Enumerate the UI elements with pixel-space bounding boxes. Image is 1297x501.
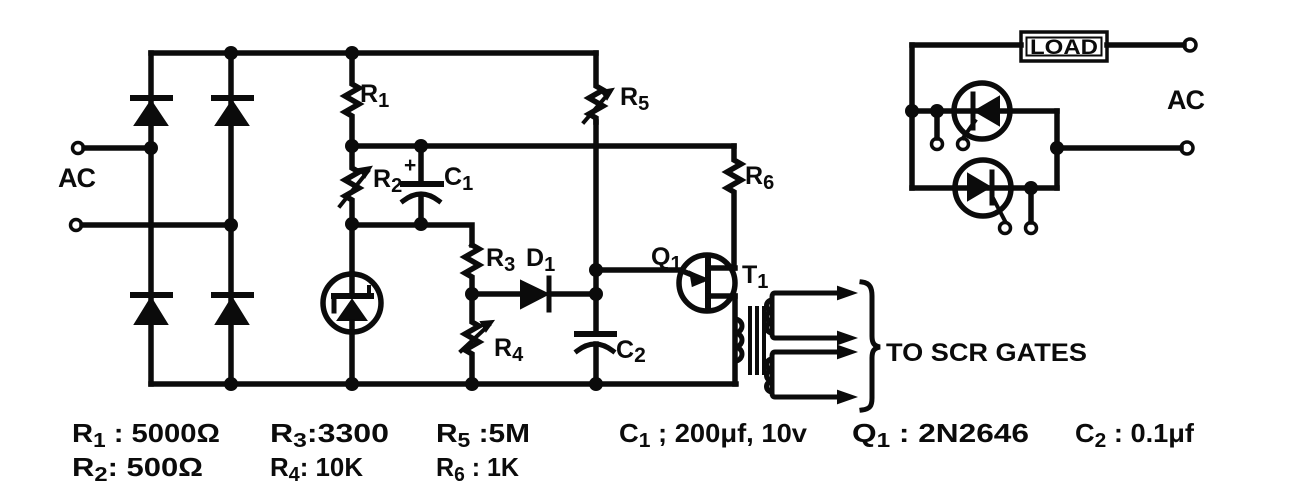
svg-text:R3:3300: R3:3300 <box>270 418 389 452</box>
svg-text:R2: R2 <box>373 165 402 197</box>
svg-text:TO SCR GATES: TO SCR GATES <box>886 339 1087 367</box>
transformer T1 primary winding <box>735 319 742 361</box>
svg-text:AC: AC <box>58 163 95 193</box>
svg-text:T1: T1 <box>742 261 768 293</box>
arrow gate lead 2 <box>838 332 855 344</box>
SCR1 cathode terminal drop <box>934 111 940 138</box>
transformer T1 secondary 1 bumps <box>767 300 772 333</box>
svg-text:+: + <box>404 154 416 177</box>
wire C1/R2 bottom node <box>352 225 472 245</box>
resistor R2 (variable) <box>340 146 371 225</box>
svg-text:LOAD: LOAD <box>1030 36 1098 59</box>
transistor Q1 (UJT 2N2646) <box>679 255 735 311</box>
wire top rail <box>151 50 596 56</box>
wire AC input 1 <box>84 145 151 151</box>
AC terminal right 2 <box>1181 142 1193 154</box>
arrow gate lead 3 <box>838 346 855 358</box>
svg-text:R6: R6 <box>745 162 774 194</box>
svg-text:R2: 500Ω: R2: 500Ω <box>72 452 203 486</box>
diode CR4 (bridge lower-right) <box>214 295 251 324</box>
wire AC terminal 2 row <box>1057 145 1181 151</box>
diode CR3 (bridge lower-left) <box>133 295 170 324</box>
zener diode (circled) <box>323 274 381 384</box>
transformer T1 secondary 2 bumps <box>767 359 772 392</box>
arrow gate lead 4 <box>838 391 855 403</box>
brace to SCR gates <box>862 282 880 410</box>
AC terminal left 1 <box>73 143 84 154</box>
resistor R4 (variable) <box>461 294 493 384</box>
wire Q1 emitter <box>596 270 702 279</box>
SCR1 gate terminal <box>958 139 969 150</box>
transformer T1 secondary 2 <box>772 352 840 397</box>
resistor R3 <box>465 245 479 294</box>
AC terminal right 1 <box>1184 39 1196 51</box>
capacitor C1 <box>403 146 441 225</box>
wire right vertical <box>1054 111 1060 188</box>
wire SCR2 row <box>912 185 1057 191</box>
wire Q1 B1 to transformer <box>732 296 738 384</box>
transformer T1 core <box>750 308 764 373</box>
svg-text:R5 :5M: R5 :5M <box>436 418 530 452</box>
arrow gate lead 1 <box>838 287 855 299</box>
svg-text:Q1: Q1 <box>651 243 682 275</box>
AC terminal left 2 <box>71 220 82 231</box>
wire to LOAD <box>912 42 1021 48</box>
svg-text:C1 ; 200μf, 10v: C1 ; 200μf, 10v <box>619 418 808 452</box>
diode D1 <box>472 278 596 310</box>
wire regulated node rail <box>352 143 734 149</box>
wire load branch vertical <box>909 45 915 188</box>
wire bridge leg 2 <box>228 53 234 384</box>
diode CR2 (bridge upper-right) <box>214 98 251 125</box>
LOAD box <box>1021 32 1107 61</box>
svg-text:R4: R4 <box>494 334 524 366</box>
SCR1 <box>954 83 1010 139</box>
wire bridge leg 1 <box>148 53 154 384</box>
svg-text:D1: D1 <box>526 244 555 276</box>
wire bottom rail <box>151 381 736 387</box>
svg-text:Q1 : 2N2646: Q1 : 2N2646 <box>852 418 1029 452</box>
wire LOAD to AC terminal <box>1107 42 1184 48</box>
svg-text:C2: C2 <box>616 336 646 367</box>
svg-text:R1: R1 <box>360 80 389 112</box>
SCR2 gate terminal <box>1000 223 1011 234</box>
diode CR1 (bridge upper-left) <box>133 98 170 125</box>
resistor R5 (variable) <box>584 53 613 122</box>
resistor R6 <box>727 146 741 268</box>
wire SCR1 row <box>912 108 1057 114</box>
resistor R1 <box>345 53 359 146</box>
wire R5 to C2 / timing node <box>593 122 599 332</box>
wire R2 bottom to zener <box>349 225 355 274</box>
svg-text:R6 : 1K: R6 : 1K <box>436 452 519 486</box>
svg-text:C2 : 0.1μf: C2 : 0.1μf <box>1075 418 1194 452</box>
svg-text:C1: C1 <box>444 163 473 195</box>
SCR2 anode terminal drop <box>1028 188 1034 222</box>
SCR2 <box>955 160 1011 221</box>
capacitor C2 <box>577 334 614 384</box>
svg-text:R4: 10K: R4: 10K <box>270 452 363 486</box>
svg-text:R1 : 5000Ω: R1 : 5000Ω <box>72 418 220 452</box>
transformer T1 secondary 1 <box>772 293 840 338</box>
wire AC input 2 <box>82 222 231 228</box>
svg-text:R3: R3 <box>486 244 515 276</box>
svg-text:AC: AC <box>1167 85 1204 115</box>
svg-text:R5: R5 <box>620 83 649 115</box>
